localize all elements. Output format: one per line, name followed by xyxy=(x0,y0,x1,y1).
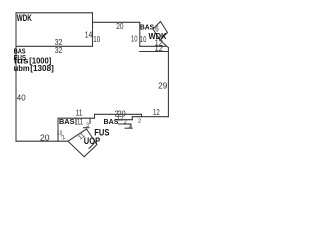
node WDK diamond top-right xyxy=(153,22,168,41)
svg-text:10: 10 xyxy=(93,35,100,44)
svg-text:BAS: BAS xyxy=(140,23,154,32)
wire cascade riser b xyxy=(130,124,132,128)
svg-text:UOP: UOP xyxy=(84,136,100,146)
wire WDK deck top edge xyxy=(16,12,93,14)
svg-text:ubm: ubm xyxy=(14,64,30,73)
svg-text:12: 12 xyxy=(155,44,164,53)
wire short wall x=76 xyxy=(75,118,77,124)
svg-text:29: 29 xyxy=(158,81,168,90)
wire left outer wall xyxy=(15,13,17,141)
wire jog connector x=141.5 xyxy=(141,114,143,116)
wire mid horizontal right part xyxy=(95,113,142,115)
svg-text:12: 12 xyxy=(117,115,124,122)
svg-text:12: 12 xyxy=(153,108,160,117)
wire vertical x=58 xyxy=(57,118,59,141)
svg-text:3: 3 xyxy=(86,122,89,129)
wire cascade step a xyxy=(116,119,132,121)
svg-text:10: 10 xyxy=(140,35,147,44)
svg-text:20: 20 xyxy=(116,22,124,31)
wire bottom-right edge xyxy=(132,116,168,118)
wire upper step line 2 xyxy=(140,51,169,53)
wire upper step line 1 xyxy=(140,45,166,47)
node UOP porch diamond xyxy=(68,129,97,157)
svg-text:WDK: WDK xyxy=(17,13,32,24)
wire top BAS edge xyxy=(93,21,140,23)
wire bottom edge left xyxy=(16,140,68,142)
wire tick under 3 xyxy=(84,127,90,129)
svg-text:14: 14 xyxy=(85,30,93,39)
wire mid horizontal left part xyxy=(58,117,95,119)
wire notch at porch corner xyxy=(89,144,94,149)
svg-text:20: 20 xyxy=(40,133,50,142)
svg-text:BAS: BAS xyxy=(59,117,75,126)
wire cascade step b xyxy=(119,123,132,125)
svg-text:[1308]: [1308] xyxy=(30,64,54,73)
svg-text:32: 32 xyxy=(55,46,63,55)
wire step connector x=93.8 xyxy=(94,114,96,118)
wire right outer wall xyxy=(167,48,169,117)
wire cascade riser a xyxy=(131,117,133,120)
svg-text:10: 10 xyxy=(131,35,138,44)
svg-text:2: 2 xyxy=(138,119,141,125)
svg-text:2: 2 xyxy=(124,120,127,126)
wire diagonal diamond to corner xyxy=(160,40,168,48)
svg-text:40: 40 xyxy=(17,94,26,103)
wire BAS right vertical x=139.5 xyxy=(139,22,141,46)
wire short wall x=90 xyxy=(89,118,91,123)
svg-text:2: 2 xyxy=(128,124,131,130)
wire cascade step c xyxy=(125,127,132,129)
svg-text:11: 11 xyxy=(77,117,84,126)
wire WDK bottom edge xyxy=(16,45,93,47)
svg-text:11: 11 xyxy=(76,108,83,117)
wire WDK right edge xyxy=(92,13,94,47)
